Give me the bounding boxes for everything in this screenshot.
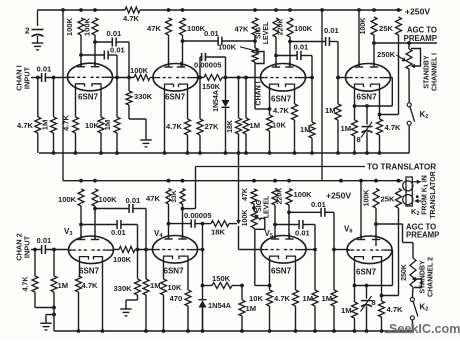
resistor 10K (V5) — [269, 286, 271, 291]
wire B+ rail channel 1 (+250V) — [38, 9, 126, 11]
svg-text:6SN7: 6SN7 — [357, 93, 378, 102]
svg-text:6SN7: 6SN7 — [165, 93, 186, 102]
svg-text:1N54A: 1N54A — [208, 301, 232, 310]
node 100K V5b top — [287, 179, 291, 183]
wire V4 plate a direct — [358, 10, 360, 67]
pot wiper ch2 — [257, 217, 260, 221]
resistor 47K (V2 plate a) — [166, 18, 172, 35]
svg-text:100K: 100K — [242, 210, 249, 227]
svg-text:100K: 100K — [58, 195, 77, 204]
svg-text:1M: 1M — [41, 120, 50, 131]
node 150K right L — [240, 284, 244, 288]
switch K2 ch2 — [410, 298, 414, 302]
wire V6 grid — [334, 249, 349, 251]
svg-text:47K: 47K — [242, 188, 249, 201]
wire chan1 input — [31, 77, 42, 79]
node AGC junction — [372, 41, 376, 45]
diode 1N54A ch2 — [202, 286, 204, 301]
svg-text:LEVEL: LEVEL — [263, 21, 270, 44]
wire V4 grid — [338, 77, 346, 79]
wire V4L cathode b lead — [187, 262, 189, 291]
wire grid2 to 150K — [197, 77, 205, 79]
capacitor 0.01 C4 — [325, 37, 327, 46]
svg-text:0.01: 0.01 — [110, 46, 126, 55]
node 1M d rail — [313, 329, 317, 333]
svg-text:1M: 1M — [300, 125, 311, 134]
svg-text:+250V: +250V — [326, 191, 351, 201]
node 10K V4L rail — [162, 329, 166, 333]
svg-text:250K: 250K — [377, 50, 396, 59]
node 18K rail crossing — [237, 151, 241, 155]
resistor 1M (a) — [309, 122, 315, 138]
wire B+ feed to channel 2 — [62, 10, 64, 181]
svg-text:K2: K2 — [420, 110, 429, 120]
resistor 100K (V1 plate b) — [92, 18, 98, 35]
node V6 plate a rail — [359, 179, 363, 183]
wire V5 plate a lead — [274, 205, 276, 239]
wire B+ to ch2 rail — [321, 10, 323, 181]
node cap8L top — [365, 284, 369, 288]
wire to 0.00005 L — [169, 223, 192, 225]
node 47K L top — [167, 179, 171, 183]
resistor 10K (V3 cathode a) — [269, 109, 271, 115]
node B+ tap for ch2 — [61, 8, 65, 12]
resistor 47K (V5 feed) — [251, 189, 257, 204]
wire V4L cathode a lead — [163, 262, 165, 280]
wire C4 to V4 grid — [329, 41, 338, 43]
ground (input filter) — [32, 42, 44, 44]
svg-text:SIG: SIG — [256, 26, 263, 39]
node cathode bus La — [353, 284, 357, 288]
node pot top ch1 — [253, 39, 257, 43]
node wiper cathode junction — [268, 107, 272, 111]
jack K1 contacts — [406, 177, 412, 206]
node 47K top — [167, 8, 171, 12]
node 1M V4 rail — [353, 151, 357, 155]
capacitor 0.01 C2L — [116, 220, 118, 229]
resistor 4.7K (B+ rail decoupling) — [125, 7, 140, 13]
wire 18K node down — [202, 224, 204, 250]
resistor 100K (AGC L) — [373, 189, 379, 209]
wire V2 plate b lead — [182, 35, 184, 67]
tube 6SN7 V3 — [69, 236, 114, 264]
svg-text:4.7K: 4.7K — [23, 277, 30, 292]
resistor 33K (V4L plate b) — [180, 189, 185, 205]
svg-text:6SN7: 6SN7 — [78, 93, 99, 102]
wire AGC L output — [376, 223, 403, 225]
resistor 100K (AGC) — [371, 17, 377, 35]
wire V5 cathode a lead — [269, 261, 271, 286]
node V1 plate b junction — [93, 40, 97, 44]
node 33K bottom — [181, 207, 185, 211]
wire K2 to rail ch1 — [408, 125, 410, 153]
svg-text:CHANNEL I: CHANNEL I — [432, 53, 439, 91]
wire V4L plate b to tube — [182, 209, 184, 239]
node feedback tap — [237, 76, 241, 80]
tube 6SN7 U1 — [68, 63, 113, 91]
tube 6SN7 U3 — [261, 64, 306, 92]
resistor 100K (V1 plate a) — [78, 18, 84, 35]
resistor 1M (c) — [241, 286, 243, 301]
resistor 10K (V1 cathode b) — [98, 117, 104, 133]
node V5 plate a junction — [273, 223, 277, 227]
node pot top ch2 — [252, 206, 256, 210]
node V6 cathode b junction — [380, 294, 384, 298]
wire V3 cathode a lead — [269, 89, 271, 109]
arrow K1 out — [412, 181, 417, 183]
svg-text:25K: 25K — [379, 24, 393, 33]
wire AGC L to grid2 — [375, 224, 377, 246]
resistor 4.7K (V6 cathode) — [381, 296, 383, 302]
node 100K V3L a top — [79, 179, 83, 183]
resistor 100K (V2 plate b) — [180, 18, 186, 35]
svg-text:4.7K: 4.7K — [123, 14, 140, 23]
wire V5 plate b lead — [288, 205, 290, 239]
node V1 kb rail — [99, 151, 103, 155]
wire input ground tie — [35, 307, 54, 309]
wire 100K AGC L down — [375, 208, 377, 224]
wire 330K to ground L — [126, 299, 138, 301]
node C1 at grid — [127, 76, 131, 80]
svg-text:STANDBY: STANDBY — [424, 55, 431, 89]
node 1M V6 rail — [353, 329, 357, 333]
svg-text:6SN7: 6SN7 — [164, 267, 185, 276]
wire V6 cathode a lead — [354, 262, 356, 286]
wire input cap to V3L grid — [45, 249, 69, 251]
resistor 220K L — [272, 189, 278, 206]
svg-text:6SN7: 6SN7 — [271, 95, 292, 104]
svg-text:0.00005: 0.00005 — [194, 61, 222, 70]
resistor 1M (V2 grid leak) — [116, 78, 118, 118]
svg-text:100K: 100K — [99, 195, 118, 204]
wire V4L plate b lead — [182, 204, 184, 209]
wire to cap C3 — [183, 40, 219, 42]
svg-text:10K: 10K — [272, 121, 286, 130]
svg-text:INPUT: INPUT — [23, 66, 32, 89]
resistor 25K L — [396, 189, 402, 209]
resistor 100K (V3 plate a) — [78, 189, 84, 206]
svg-text:100K: 100K — [187, 24, 206, 33]
svg-text:470: 470 — [170, 294, 183, 303]
resistor 4.7K (V1 cathode a) — [73, 117, 79, 133]
wire K2 to rail ch2 — [411, 320, 413, 331]
svg-text:1M: 1M — [246, 304, 257, 313]
wire V2 cathode a to rail — [164, 89, 166, 153]
svg-text:LEVEL: LEVEL — [264, 195, 271, 218]
node 1M to rail — [52, 151, 56, 155]
wire V3 cathode b lead — [294, 89, 296, 104]
svg-text:0.01: 0.01 — [126, 196, 142, 205]
node diode rail L — [201, 329, 205, 333]
potentiometer 100K SIG LEVEL ch1 — [254, 41, 256, 48]
node V5 grid2 tie — [313, 248, 317, 252]
resistor 1M (V4L grid leak) — [145, 250, 147, 280]
wire input cap to V1 grid — [45, 77, 68, 79]
svg-text:1M: 1M — [322, 294, 333, 303]
node AGC junction L — [374, 222, 378, 226]
wire V1 cathode b lead — [100, 89, 102, 118]
node 4.7K V3 rail — [293, 151, 297, 155]
wire to cap C1 — [95, 41, 112, 43]
node 150K left L — [201, 284, 205, 288]
wire common rail channel 1 — [39, 152, 409, 154]
node 1M V3 rail — [244, 151, 248, 155]
wire V3 plate a lead — [275, 37, 277, 67]
node 1M b rail — [336, 151, 340, 155]
node cap8L rail — [365, 329, 369, 333]
tube 6SN7 V6 — [347, 236, 392, 264]
resistor 150K (interstage) — [204, 75, 222, 81]
wire TO TRANSLATOR — [196, 166, 366, 168]
wire C1L to grid — [133, 208, 146, 210]
svg-text:4.7K: 4.7K — [273, 106, 290, 115]
svg-text:1M: 1M — [150, 281, 161, 290]
wire C2L to grid — [121, 224, 138, 226]
svg-text:10K: 10K — [249, 294, 263, 303]
pot 250K wiper loop ch1 — [411, 49, 421, 67]
svg-text:SeekIC.com: SeekIC.com — [389, 322, 460, 336]
svg-text:150K: 150K — [212, 274, 231, 283]
wire 4.7K input lead — [37, 78, 39, 118]
capacitor 2 (electrolytic) — [32, 29, 44, 31]
svg-text:100K: 100K — [364, 190, 371, 207]
resistor 4.7K (V5) — [293, 290, 299, 306]
svg-text:100K: 100K — [65, 17, 74, 36]
ground (330K L) — [120, 308, 132, 310]
svg-text:PREAMP: PREAMP — [406, 231, 439, 240]
svg-text:FROM K1 IN: FROM K1 IN — [422, 175, 430, 215]
node V3 grid2 tie — [310, 76, 314, 80]
svg-text:4.7K: 4.7K — [274, 294, 291, 303]
wire V1 plate a lead — [80, 35, 82, 67]
node 1M V3 grid — [244, 76, 248, 80]
resistor 100K (V3 plate b) — [287, 18, 293, 37]
svg-text:33K: 33K — [171, 190, 178, 203]
capacitor 0.01 C1 — [111, 38, 113, 47]
wire V3 grid2 stub — [306, 77, 313, 79]
svg-text:1M: 1M — [250, 121, 261, 130]
node V2 ka rail — [163, 151, 167, 155]
svg-text:100K: 100K — [294, 24, 313, 33]
wire cathode bus L — [355, 285, 393, 287]
capacitor 0.01 C4L — [320, 208, 322, 217]
node input top of 1M — [52, 76, 56, 80]
wire cathode bus — [355, 105, 393, 107]
svg-text:0.01: 0.01 — [111, 228, 127, 237]
capacitor 8 ch1 — [366, 106, 368, 125]
wire to cap C4 — [290, 41, 326, 43]
node V5 ka junction — [268, 284, 272, 288]
node V3 plate a junction — [274, 54, 278, 58]
node V5 plate b junction — [287, 210, 291, 214]
node C1L at grid — [144, 248, 148, 252]
node V2 plate b junction — [181, 39, 185, 43]
svg-text:100K: 100K — [360, 18, 367, 35]
node 27K rail — [198, 151, 202, 155]
svg-text:0.01: 0.01 — [37, 236, 53, 245]
wire node down to 150K — [202, 250, 204, 286]
svg-text:0.01: 0.01 — [204, 29, 220, 38]
resistor 1M (ch1 grid leak) — [51, 117, 57, 133]
svg-text:4.7K: 4.7K — [62, 114, 71, 131]
resistor 1M (V3 grid leak) — [245, 78, 247, 119]
wire V3L plate b lead — [94, 206, 96, 239]
wire V2 plate a lead — [168, 35, 170, 67]
svg-text:K2: K2 — [411, 207, 419, 217]
capacitor 0.01 (input ch1) — [41, 73, 43, 82]
resistor 1M (V4 output) — [354, 106, 356, 120]
svg-text:0.01: 0.01 — [294, 43, 310, 52]
wire B+ rail channel 2 — [63, 180, 403, 182]
wire V6 plate a direct — [360, 181, 362, 239]
wire to cap C1L — [95, 208, 129, 210]
node V3 plate b junction — [288, 40, 292, 44]
node input ch2 b — [52, 248, 56, 252]
svg-text:100K: 100K — [130, 66, 149, 75]
wire 330K to ground — [129, 118, 146, 120]
wire V3L plate a lead — [80, 206, 82, 239]
node 18K node — [201, 222, 205, 226]
svg-text:100K: 100K — [83, 17, 92, 36]
resistor 1M (e) — [333, 250, 335, 291]
svg-text:220K: 220K — [278, 19, 285, 36]
node input ground b — [52, 313, 56, 317]
wire V5 cathode b lead — [295, 261, 297, 290]
node V3L kb rail — [101, 329, 105, 333]
resistor 100K (V3 plate b) — [92, 189, 98, 206]
svg-text:6SN7: 6SN7 — [79, 267, 100, 276]
resistor 470 — [185, 290, 191, 306]
node V4L plate a tap — [167, 222, 171, 226]
svg-text:6SN7: 6SN7 — [271, 267, 292, 276]
wire to cap C5 — [276, 55, 297, 57]
wire common rail channel 2 — [55, 330, 412, 332]
node V2 grid2 — [198, 76, 202, 80]
node cathode bus a — [353, 104, 357, 108]
resistor 27K — [199, 78, 201, 120]
resistor 220K (V3 plate a) — [273, 18, 279, 37]
node 100K a top — [79, 8, 83, 12]
resistor 4.7K (ch2 input) — [34, 250, 36, 277]
svg-text:8: 8 — [357, 135, 361, 144]
wire V4 cathode b lead — [379, 89, 381, 115]
wire feedback to channel 2 — [238, 153, 240, 221]
wire 150K node to cathode — [255, 285, 270, 287]
node V4 cathode b junction — [378, 113, 382, 117]
svg-text:1M: 1M — [341, 306, 352, 315]
svg-text:1N54A: 1N54A — [213, 90, 220, 112]
node 10K V5 rail — [268, 329, 272, 333]
svg-text:330K: 330K — [134, 92, 153, 101]
resistor 150K L — [203, 285, 213, 287]
wire x203 to rail — [202, 308, 204, 332]
wire C3 to pot — [222, 40, 255, 42]
resistor 4.7K (ch1 input) — [35, 117, 41, 133]
node V4 plate a rail — [357, 8, 361, 12]
capacitor 0.01 C3 — [217, 37, 219, 46]
svg-text:47K: 47K — [147, 24, 161, 33]
node 4.7K V5 rail — [294, 329, 298, 333]
node 4.7K V4 rail — [378, 151, 382, 155]
resistor 1M (V6 output) — [354, 286, 356, 303]
node AGC pot tap — [407, 41, 411, 45]
resistor 330K L — [137, 250, 139, 280]
wire 18K to V5 grid — [238, 226, 240, 250]
svg-text:27K: 27K — [205, 122, 219, 131]
resistor 100K (V5 plate b) — [286, 189, 292, 206]
svg-text:25K: 25K — [381, 195, 395, 204]
node 1M c rail — [240, 329, 244, 333]
node C4 at V4 grid — [336, 76, 340, 80]
wire wiper to cathode — [255, 108, 270, 110]
wire to cap C2L — [81, 224, 117, 226]
svg-text:10K: 10K — [168, 283, 182, 292]
node 470 rail — [186, 329, 190, 333]
svg-text:0.01: 0.01 — [107, 29, 123, 38]
node cap8 top — [365, 104, 369, 108]
resistor 47K (V3 plate feed) — [252, 18, 258, 35]
tube 6SN7 U2 — [153, 64, 198, 92]
node input top of 4.7K — [36, 76, 40, 80]
tube 6SN7 U4 — [346, 64, 391, 92]
svg-text:4.7K: 4.7K — [385, 123, 402, 132]
potentiometer 250K STANDBY ch1 — [408, 43, 410, 49]
capacitor 8 ch2 — [366, 286, 368, 299]
node V3L ka rail — [77, 329, 81, 333]
node 47K pot top rail — [253, 8, 257, 12]
svg-text:CHANNEL 2: CHANNEL 2 — [428, 257, 435, 297]
capacitor 0.00005 L — [190, 219, 192, 227]
node 100K V3L b top — [93, 179, 97, 183]
svg-text:INPUT: INPUT — [23, 235, 32, 258]
svg-text:0.01: 0.01 — [324, 26, 340, 35]
wire C2 to grid bus — [108, 54, 117, 56]
node 100K d top — [288, 8, 292, 12]
wire input node to rail ch2 — [53, 315, 55, 332]
wire grid2 stub V4L — [198, 249, 203, 251]
node 25K L top — [397, 179, 401, 183]
wire C5 to 1M — [301, 55, 312, 57]
node V4L grid2 — [201, 248, 205, 252]
capacitor 0.01 C5 — [296, 51, 298, 60]
svg-text:4.7K: 4.7K — [166, 122, 183, 131]
wire V3 plate b lead — [289, 37, 291, 67]
svg-text:TO TRANSLATOR: TO TRANSLATOR — [367, 163, 436, 172]
capacitor 0.01 C1L — [128, 204, 130, 213]
wire AGC junction to plate b — [373, 43, 375, 67]
resistor 10K (V4L) — [161, 279, 167, 295]
svg-text:330K: 330K — [114, 284, 133, 293]
ground (ch2 input) — [40, 322, 52, 324]
node 100K c top — [181, 8, 185, 12]
node 220K L top — [273, 179, 277, 183]
node 47K ch2 top rail — [252, 179, 256, 183]
svg-text:4.7K: 4.7K — [17, 121, 34, 130]
node rail2 tap341 — [339, 179, 343, 183]
svg-text:4.7K: 4.7K — [387, 305, 404, 314]
wire wiper down ch2 — [254, 229, 256, 285]
node 1M grid leak rail — [115, 151, 119, 155]
resistor 18K (horizontal) — [211, 221, 229, 227]
node C2 at grid — [115, 76, 119, 80]
svg-text:10K: 10K — [85, 121, 99, 130]
arrow K1 in — [414, 199, 418, 203]
potentiometer 250K STANDBY ch2 — [412, 243, 414, 259]
svg-text:0.01: 0.01 — [311, 200, 327, 209]
node 1M a rail — [310, 151, 314, 155]
resistor 47K (V4L plate a) — [166, 189, 171, 205]
svg-text:1M: 1M — [303, 294, 314, 303]
